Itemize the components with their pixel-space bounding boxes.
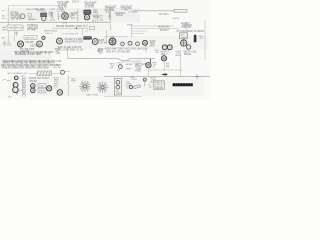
svg-text:180V 47K .047 820 DEF: 180V 47K .047 820 DEF (106, 52, 131, 54)
tube V11 pair b (167, 45, 172, 50)
coil L11 (128, 41, 132, 45)
tube V3 small (20, 14, 25, 19)
scan tone wash mid band (0, 24, 112, 34)
svg-text:RF UNIT: RF UNIT (16, 28, 25, 30)
wire: bottom long bus y=76.7 (104, 76, 210, 78)
svg-text:PM: PM (19, 90, 22, 92)
wire: vertical x=146 (145, 44, 147, 53)
wire: vertical x=164.5 (164, 62, 166, 71)
tube V10 electrodes (143, 42, 146, 45)
svg-text:COIL L4: COIL L4 (45, 33, 53, 35)
svg-text:BLK: BLK (110, 67, 114, 69)
crt socket circle b (116, 85, 120, 89)
wire: vertical x=77.5 (77, 9, 79, 22)
svg-text:T4 .001 470K 22K: T4 .001 470K 22K (62, 34, 79, 36)
wire: B+ bus y=58.7 with dip (68, 59, 156, 61)
svg-text:.0015: .0015 (62, 22, 68, 24)
svg-text:1.5K: 1.5K (99, 20, 104, 22)
tube V13 hv reg (186, 45, 190, 49)
svg-text:YOKE: YOKE (135, 71, 142, 73)
svg-text:ANT COIL: ANT COIL (26, 36, 36, 39)
tube V2 mixer (37, 41, 43, 47)
svg-text:10K: 10K (93, 12, 98, 14)
antenna ANT1 (3, 42, 11, 47)
hatch box start x37 y71 (38, 71, 52, 76)
wire: bottom line y=96.2 (104, 95, 142, 97)
tube V17 audio pair b (31, 88, 36, 93)
trimmer CT1 (42, 36, 45, 39)
component ticks row 3 (3, 65, 44, 68)
svg-text:CAP MFD: CAP MFD (11, 18, 21, 21)
svg-text:COILS: COILS (116, 15, 123, 17)
tube V5 electrodes (63, 13, 67, 20)
tube V8 audio out (92, 39, 98, 45)
scan tone wash top band (6, 8, 140, 23)
parts table box hatched (154, 81, 165, 90)
coil L8 box (90, 26, 95, 30)
tube V16 electrodes (31, 85, 34, 87)
tube V20 small (61, 70, 65, 74)
pointer blob dark (162, 73, 168, 75)
svg-text:6J6 MIX: 6J6 MIX (26, 42, 35, 44)
resistor R64 in box on AGC line (174, 9, 187, 12)
tube V12 damper (181, 40, 187, 46)
wire: grid line y=36.3 (104, 35, 128, 37)
output transformer box b (38, 89, 46, 93)
wire: AGC line y=10.6 top right (133, 10, 174, 12)
hatch box fill lines (37, 71, 51, 76)
terminal strip dots (23, 78, 25, 94)
wire: vertical x=87 (86, 24, 88, 32)
svg-text:CONT: CONT (131, 79, 137, 81)
tube V2 electrodes (38, 43, 41, 46)
tube V6 electrodes (85, 16, 88, 19)
tube V1 electrodes (19, 43, 23, 46)
coil L12 (136, 42, 140, 46)
deflection yoke winding A spokes (79, 81, 91, 93)
svg-text:ALL VOLTAGES ±10%: ALL VOLTAGES ±10% (8, 72, 28, 75)
svg-text:T-AU: T-AU (39, 85, 44, 88)
wire: horizontal y=28.5 right (132, 28, 180, 30)
wire: tick below B+ bus (150, 59, 152, 63)
tube V18 electrodes (48, 87, 51, 90)
transformer T3 highlight (84, 37, 91, 39)
wire: vertical x=131.5 sync fanout (131, 24, 133, 38)
speaker circle c (13, 87, 19, 93)
wire: horizontal y=73.7 (29, 72, 70, 74)
svg-text:L7 250UH: L7 250UH (128, 11, 138, 13)
speaker circle b inner (13, 83, 16, 86)
svg-text:CAGE: CAGE (181, 36, 187, 39)
tube V4 under T1 (42, 16, 46, 20)
tube V6 under T2 (84, 15, 89, 20)
wire: vertical x=44 under converter (43, 13, 45, 23)
svg-text:PWR: PWR (71, 81, 76, 83)
capacitor C1 mark (15, 32, 18, 36)
tube V18 rect (47, 86, 52, 91)
tube V16 audio pair a (31, 84, 36, 89)
svg-text:DRIVE: DRIVE (184, 54, 191, 56)
transformer T1 highlight (41, 14, 47, 16)
svg-text:LIN: LIN (117, 70, 121, 72)
peaking coil marks above V9 (111, 35, 115, 37)
svg-text:6AU6 RATIO DET: 6AU6 RATIO DET (65, 41, 84, 44)
brand logotype black (173, 83, 193, 86)
yoke A hub (84, 85, 87, 88)
svg-text:45.75: 45.75 (50, 20, 56, 22)
capacitor C2 small box (28, 13, 32, 16)
svg-text:6BQ6: 6BQ6 (176, 55, 182, 57)
svg-text:6SN7: 6SN7 (150, 46, 156, 48)
svg-text:21EP4: 21EP4 (116, 93, 123, 95)
svg-text:41.25 MC: 41.25 MC (85, 7, 95, 9)
interlock comp vertical (144, 79, 146, 87)
svg-text:25V: 25V (99, 53, 104, 55)
output transformer box a (38, 84, 46, 88)
scan tone wash tube band (0, 36, 208, 50)
wire: sound IF line y=28.2 (52, 27, 87, 29)
tube V15 electrodes (162, 57, 165, 60)
tube V9 video amp dark (109, 38, 116, 45)
tube V7 sound IF (57, 38, 63, 44)
node: junction dot x76.5 y28.2 (76, 27, 78, 29)
tube V15 horiz osc dark (161, 56, 166, 61)
wire: long horizontal bus y=22.3 (0, 21, 110, 23)
svg-text:OSC: OSC (155, 52, 160, 54)
transformer T2 highlight (84, 11, 90, 13)
transformer T1 osc coil dark (40, 13, 47, 17)
svg-text:DEFL YOKE: DEFL YOKE (87, 94, 99, 96)
tube V9 electrodes (110, 38, 115, 45)
tube V7 electrodes (58, 40, 62, 43)
deflection yoke winding B spokes (97, 82, 109, 94)
svg-text:HEIGHT: HEIGHT (126, 64, 134, 66)
fuse resistor cylinder (134, 85, 141, 89)
scan tone wash bottom band (8, 76, 204, 96)
wire: vertical x=97.3 (96, 10, 98, 22)
tube V1 RF amp (17, 41, 23, 47)
tube V5 video IF (62, 13, 69, 20)
svg-text:POWER 117V 60CY 85W: POWER 117V 60CY 85W (15, 54, 42, 56)
svg-text:CONTROL: CONTROL (121, 8, 133, 10)
wire: vertical x=110 from video det (109, 7, 111, 30)
tick marks on x77.5 riser (76, 12, 78, 18)
svg-text:1.5K: 1.5K (56, 53, 61, 55)
transformer T2 dark coil (83, 10, 91, 15)
svg-text:VIDEO AMP 12BY7 AGC SYNC IN: VIDEO AMP 12BY7 AGC SYNC INV 6CS6 (105, 48, 148, 51)
svg-text:R3 1K: R3 1K (29, 19, 35, 21)
svg-text:RF AMP: RF AMP (28, 29, 37, 32)
tuner box S1 channel selector (7, 25, 23, 30)
wire: fanout line y=31 (132, 30, 148, 32)
svg-text:AUDIO OUT 6V6GT: AUDIO OUT 6V6GT (29, 77, 50, 80)
svg-text:4.7K: 4.7K (106, 12, 111, 14)
wire: horizontal y=70 right (150, 69, 182, 71)
svg-text:KEYED: KEYED (173, 18, 180, 20)
svg-text:2ND IF: 2ND IF (72, 1, 80, 3)
terminal strip ladder (23, 77, 26, 97)
svg-text:6SN7GT: 6SN7GT (160, 30, 169, 32)
wire: vertical x=82.5 (82, 27, 84, 36)
svg-text:HOLD: HOLD (117, 62, 123, 64)
tube V8 electrodes (93, 40, 97, 43)
svg-text:TO PIN 5: TO PIN 5 (37, 11, 47, 13)
wire: top horizontal bus y=5.6 (9, 5, 67, 7)
tube V14 electrodes (147, 64, 150, 67)
coil L10 (121, 42, 125, 46)
wire: vertical x=106.5 (105, 30, 107, 44)
wire: left vertical bus x=8.5 (8, 6, 10, 42)
svg-text:HORIZ AFC: HORIZ AFC (158, 25, 170, 28)
yoke B hub (101, 86, 104, 89)
wire: vertical x=180.5 (180, 50, 182, 77)
resistor R12 left of V5 (58, 13, 60, 20)
tube V12 electrodes (181, 40, 187, 46)
svg-text:1MEG: 1MEG (126, 68, 132, 70)
svg-text:SOUND TAKEOFF 4.5MC T5: SOUND TAKEOFF 4.5MC T5 (56, 25, 86, 28)
wire: vertical x=186 AGC drop (185, 22, 187, 33)
tube V14 vert out dark (146, 62, 151, 67)
tube V17 electrodes (31, 89, 34, 91)
wire: fanout line y=33.5 (132, 33, 145, 35)
pilot lamp circle (129, 85, 132, 88)
speaker circle a inner (14, 77, 17, 79)
coil L5 box (24, 35, 37, 39)
tuner box divider (14, 25, 16, 30)
crt socket circle a (116, 80, 120, 84)
wire: vertical x=14.4 tuner drop (13, 31, 15, 41)
vert osc cluster circle (118, 65, 122, 69)
wire: right vertical x=205 (204, 20, 206, 60)
resistor R8 vertical x52 (51, 12, 53, 19)
wire: bottom left stub (8, 96, 12, 98)
svg-text:FIELD: FIELD (39, 91, 45, 93)
tube V10 sync sep (143, 40, 148, 45)
svg-text:1ST AF: 1ST AF (100, 41, 108, 44)
svg-text:CHASSIS: CHASSIS (154, 87, 163, 90)
svg-text:OSC 250V: OSC 250V (30, 46, 41, 48)
component ticks row 2 (4, 60, 49, 63)
logotype letter gaps (175, 83, 190, 86)
transformer T3 ratio detector dark (83, 36, 91, 39)
speaker circle c tail (16, 92, 19, 94)
wire: vertical x=68.5 bottom (68, 75, 70, 96)
svg-text:CONV: CONV (49, 9, 55, 11)
crt socket shield box (114, 78, 121, 95)
wire: V14 cathode drop x148.4 (147, 68, 149, 77)
svg-text:500 8Ω: 500 8Ω (30, 81, 38, 83)
component ticks row 1 (16, 51, 49, 54)
svg-text:B BOOST: B BOOST (182, 27, 193, 29)
speaker circle b (13, 82, 18, 87)
scan tone wash chart band (0, 50, 52, 68)
svg-text:HV 14KV 1B3GT FLYBACK: HV 14KV 1B3GT FLYBACK (177, 30, 205, 33)
svg-text:GND: GND (92, 20, 97, 22)
interlock circle (143, 78, 146, 81)
svg-text:TRAP: TRAP (93, 16, 100, 19)
wire: fanout line y=26 (132, 25, 175, 27)
hv cage box (180, 33, 188, 39)
speaker lead squiggle (3, 79, 11, 81)
wire: vertical x=67.5 (67, 48, 69, 59)
tube V19 focus (57, 90, 63, 96)
svg-text:FUSE 2A INTERLOCK CHEATER CO: FUSE 2A INTERLOCK CHEATER CORD S300 (2, 66, 50, 69)
svg-text:SYNC: SYNC (127, 25, 133, 27)
diode CR1 vertical (109, 13, 111, 20)
svg-text:.047 180: .047 180 (53, 67, 62, 69)
svg-text:TUNER: TUNER (8, 28, 15, 30)
tube V11 pair a (162, 45, 167, 50)
speaker circle a (14, 76, 18, 80)
svg-text:VOL CONT 500K .02 1M: VOL CONT 500K .02 1M (58, 49, 83, 51)
svg-text:R300 2.7K 2W R301 10K R302 4: R300 2.7K 2W R301 10K R302 470 R303 1M S… (3, 62, 56, 64)
node: junction cross x=197 (195, 74, 200, 79)
svg-text:AGC BUS: AGC BUS (159, 13, 170, 16)
tube V19 electrodes (58, 91, 62, 94)
hv rectifier dark bar (194, 35, 197, 42)
